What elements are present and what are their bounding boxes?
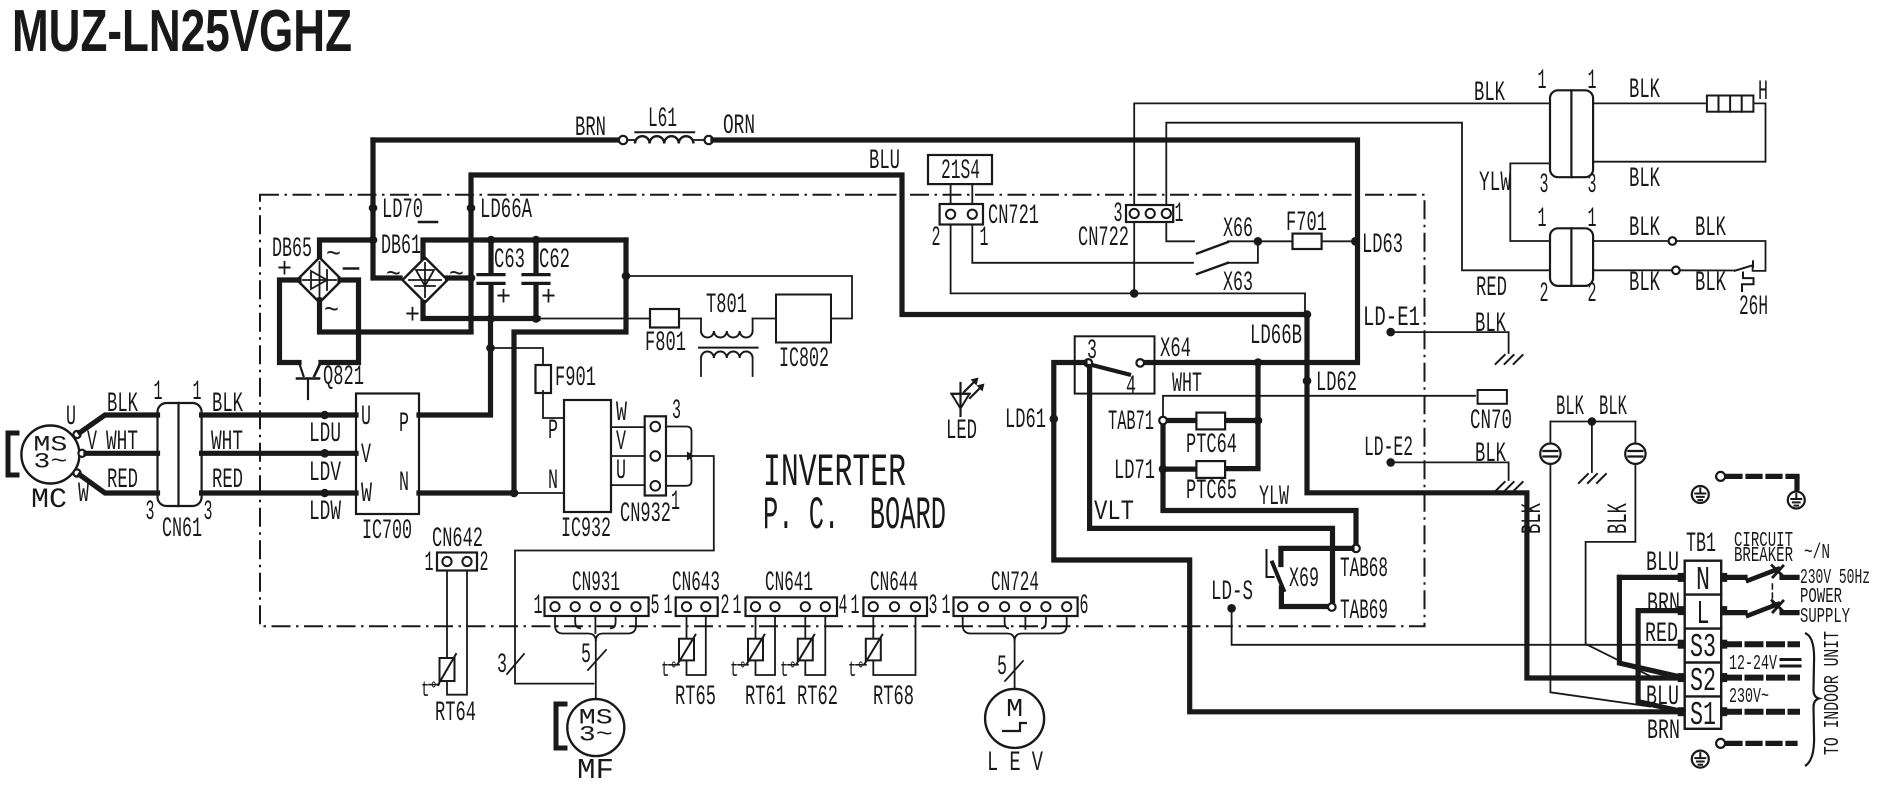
node LD66A <box>467 195 532 226</box>
svg-text:BLK: BLK <box>1629 75 1660 106</box>
svg-text:LED: LED <box>946 416 977 447</box>
svg-text:1: 1 <box>671 487 680 518</box>
diode bridge DB65 <box>297 258 342 303</box>
svg-text:1: 1 <box>1538 66 1547 97</box>
label C63 + <box>496 283 511 314</box>
terminal MC U <box>73 431 80 438</box>
svg-text:RED: RED <box>1476 273 1507 304</box>
breaker link dashed <box>1771 584 1773 607</box>
switch X64 blade <box>1092 365 1129 375</box>
label plug2 pin1 R <box>1588 204 1597 235</box>
svg-text:MC: MC <box>31 485 67 516</box>
label plug1 pin3 L <box>1540 170 1549 201</box>
coil 21S4 box <box>928 155 992 184</box>
wire to F701 <box>1258 240 1293 242</box>
svg-text:PTC65: PTC65 <box>1186 476 1237 507</box>
capacitor C63 <box>478 240 504 319</box>
node PTC tap <box>1254 358 1263 367</box>
svg-text:BLK: BLK <box>1518 503 1549 534</box>
svg-text:1: 1 <box>733 591 742 622</box>
svg-text:2: 2 <box>1540 279 1549 310</box>
label plug1 pin1 L <box>1538 66 1547 97</box>
label CN641 pin1 <box>733 591 742 622</box>
label 230V 50Hz <box>1800 567 1870 590</box>
wire RT65 left <box>686 616 688 639</box>
wire cap left down <box>1550 464 1650 707</box>
label plug1 pin1 R <box>1588 66 1597 97</box>
wire F701 to LD63 <box>1322 240 1354 242</box>
svg-text:LD66A: LD66A <box>480 195 532 226</box>
label DB61 + bottom <box>405 301 420 332</box>
splice pin2 <box>1672 267 1680 275</box>
svg-text:MUZ-LN25VGHZ: MUZ-LN25VGHZ <box>12 0 352 64</box>
svg-text:3: 3 <box>497 650 507 681</box>
op-amp IC700 box <box>356 394 419 515</box>
label CN644 pin1 <box>851 591 860 622</box>
wire MC U BLK <box>80 415 158 433</box>
label CN642 <box>432 524 483 555</box>
svg-text:N: N <box>1696 562 1710 599</box>
svg-text:TB1: TB1 <box>1686 529 1716 560</box>
capacitor feedthrough left <box>1540 422 1560 464</box>
terminal X64 right <box>1136 359 1144 367</box>
node C62 bottom <box>532 314 541 323</box>
transformer T801 <box>699 319 776 377</box>
label BLK vert right <box>1604 503 1635 534</box>
svg-text:3~: 3~ <box>33 450 67 475</box>
svg-text:+: + <box>496 283 511 314</box>
svg-text:BLK: BLK <box>1556 392 1584 423</box>
svg-text:BRN: BRN <box>1647 589 1680 620</box>
svg-text:BRN: BRN <box>575 113 606 144</box>
label RT65 <box>675 682 716 713</box>
terminal earth lower <box>1716 739 1725 748</box>
svg-text:RT61: RT61 <box>745 682 786 713</box>
svg-text:LD-S: LD-S <box>1211 577 1253 608</box>
label TB1 S2 <box>1690 663 1716 700</box>
svg-text:S1: S1 <box>1690 697 1716 734</box>
wire F901 to IC932 P <box>543 391 564 418</box>
label TB1 N <box>1696 562 1710 599</box>
label IC700 <box>362 516 412 547</box>
svg-text:CN70: CN70 <box>1470 406 1512 437</box>
wire RT64 left <box>446 571 448 659</box>
label C62 + <box>541 283 556 314</box>
svg-text:6: 6 <box>1080 591 1089 622</box>
ground LD-E1 <box>1496 355 1523 364</box>
label YLW <box>1259 482 1289 513</box>
svg-text:TO INDOOR UNIT: TO INDOOR UNIT <box>1822 631 1845 755</box>
wire rail to IC802 <box>626 276 852 319</box>
wire MC W RED <box>80 475 158 493</box>
node C63 top <box>487 236 496 245</box>
svg-text:L61: L61 <box>648 104 677 135</box>
label MC V <box>87 427 97 458</box>
connector CN721 <box>940 204 983 225</box>
wire CN722 pin1 down <box>1166 222 1194 241</box>
switch X69 wire <box>1281 548 1352 564</box>
terminal earth upper <box>1716 472 1725 481</box>
terminal X64 left <box>1085 359 1093 367</box>
node LDV <box>309 449 341 489</box>
fuse F901 <box>536 365 552 393</box>
svg-text:BLK: BLK <box>1604 503 1635 534</box>
svg-text:BLU: BLU <box>869 146 900 177</box>
wire N to IC932 <box>514 492 564 494</box>
wire plug2 pin1 out <box>1593 240 1669 242</box>
svg-text:230V~: 230V~ <box>1729 686 1769 709</box>
ground filter <box>1579 474 1606 483</box>
wire earth dashes lower <box>1728 741 1795 746</box>
wire RT62 loop <box>805 616 825 675</box>
wire TAB71-LD71 <box>1160 424 1165 469</box>
svg-text:LD66B: LD66B <box>1250 321 1302 352</box>
svg-text:3: 3 <box>1540 170 1549 201</box>
wire pin2 to 26H <box>1680 269 1735 271</box>
svg-text:LD71: LD71 <box>1114 456 1155 487</box>
svg-text:M: M <box>1006 694 1023 724</box>
svg-text:W: W <box>78 479 89 510</box>
connector CN644 <box>863 597 927 616</box>
connector CN641 <box>746 597 838 616</box>
label CN932 pin3 <box>672 396 681 427</box>
svg-text:CN721: CN721 <box>988 201 1039 232</box>
svg-text:3: 3 <box>1114 199 1123 230</box>
svg-text:L: L <box>1697 596 1710 633</box>
label BLK plug1 left <box>1474 78 1505 109</box>
label t RT62 <box>780 658 798 683</box>
svg-text:1: 1 <box>851 591 860 622</box>
label CN721 pin1 <box>980 223 989 254</box>
svg-text:BLK: BLK <box>1695 213 1726 244</box>
svg-text:X66: X66 <box>1223 214 1253 245</box>
label CN932 pin1 <box>671 487 680 518</box>
label F701 <box>1286 208 1327 239</box>
op-amp IC932 box <box>564 400 611 512</box>
svg-text:BRN: BRN <box>1647 716 1680 747</box>
label CN642 pin2 <box>480 548 489 579</box>
svg-text:+: + <box>541 283 556 314</box>
svg-text:1: 1 <box>664 591 673 622</box>
label BLU N <box>1646 548 1679 579</box>
svg-text:21S4: 21S4 <box>941 156 980 187</box>
label X64 pin4 <box>1126 372 1136 403</box>
label TAB71 <box>1108 407 1154 438</box>
svg-text:3: 3 <box>929 591 938 622</box>
label L61 <box>635 104 694 135</box>
label YLW plug <box>1479 168 1511 199</box>
connector CN931 <box>545 597 649 616</box>
node LD-E1 <box>1363 303 1420 336</box>
LED indicator <box>952 378 985 417</box>
label CIRCUIT BREAKER <box>1734 530 1793 568</box>
svg-text:U: U <box>361 402 371 433</box>
thermistor RT64 <box>438 654 456 685</box>
svg-text:BLK: BLK <box>1629 164 1660 195</box>
label CN641 pin4 <box>839 591 848 622</box>
wire BRN top <box>373 137 619 142</box>
svg-text:CN642: CN642 <box>432 524 483 555</box>
label t RT68 <box>848 658 866 683</box>
wire X69 to TAB69 <box>1281 588 1327 607</box>
label IC932 <box>561 514 611 545</box>
label VLT <box>1094 497 1134 528</box>
label H <box>1758 77 1768 108</box>
label CN643 pin1 <box>664 591 673 622</box>
svg-text:LD-E2: LD-E2 <box>1364 433 1413 464</box>
label BLK p2b <box>1695 213 1726 244</box>
wire S3 dashed <box>1726 641 1797 647</box>
thermistor RT65 <box>678 635 696 665</box>
label X69 <box>1289 564 1319 595</box>
fuse F701 <box>1293 234 1322 249</box>
svg-text:~/N: ~/N <box>1804 542 1830 565</box>
svg-text:P: P <box>399 409 409 440</box>
wire CN722 pin3 up <box>1134 103 1548 205</box>
thermistor RT68 <box>864 635 882 665</box>
svg-text:C62: C62 <box>539 245 570 276</box>
wire 3-wire harness to MF <box>515 456 714 684</box>
wire RT61 left <box>755 616 757 639</box>
wire LD-E1 ground <box>1394 332 1509 353</box>
resistor PTC64 <box>1196 413 1225 430</box>
label TB1 S3 <box>1690 629 1716 666</box>
label DB65 ~ top <box>326 240 341 271</box>
label CN61 pin1 left <box>154 377 163 408</box>
connector CN932 <box>645 416 666 495</box>
svg-text:1: 1 <box>1588 66 1597 97</box>
svg-text:IC700: IC700 <box>362 516 412 547</box>
svg-text:RT68: RT68 <box>873 682 914 713</box>
connector CN642 <box>437 553 477 571</box>
node DB61-LD66A junction <box>467 274 476 283</box>
label BLK return <box>1629 164 1660 195</box>
svg-text:LD70: LD70 <box>382 195 423 226</box>
label BLK left <box>107 389 138 420</box>
svg-text:RT64: RT64 <box>435 698 476 729</box>
wire IC932 U <box>611 484 645 486</box>
wire DB65 top riser <box>320 240 374 259</box>
label 21S4 <box>941 156 980 187</box>
label SUPPLY <box>1800 606 1850 629</box>
wire WHT CN70 <box>1163 396 1475 417</box>
label BLK LD-E2 <box>1475 439 1506 470</box>
breaker L <box>1725 601 1797 616</box>
label DB65 ~ bottom <box>324 296 339 327</box>
label CN70 <box>1470 406 1512 437</box>
node LD-S <box>1211 577 1253 613</box>
wire RT64 loop <box>447 571 467 695</box>
label DB61 ~ right <box>449 260 464 291</box>
svg-text:V: V <box>616 427 626 458</box>
svg-text:BLK: BLK <box>1629 213 1660 244</box>
wire MC V WHT <box>86 451 158 456</box>
svg-text:RT62: RT62 <box>797 682 838 713</box>
svg-text:3: 3 <box>1588 170 1597 201</box>
label BRN S1 <box>1647 716 1680 747</box>
connector plug upper <box>1550 90 1593 177</box>
node filter mid <box>1588 417 1597 426</box>
svg-text:1: 1 <box>942 591 951 622</box>
svg-text:X63: X63 <box>1223 268 1253 299</box>
label CN722 pin1 <box>1175 199 1184 230</box>
svg-text:ORN: ORN <box>723 111 755 142</box>
svg-text:3~: 3~ <box>579 723 613 748</box>
svg-text:T801: T801 <box>706 290 747 321</box>
motor LEV <box>985 689 1044 748</box>
svg-text:F801: F801 <box>645 328 686 359</box>
label CN931 pin5 <box>651 591 660 622</box>
wire DC top bus <box>423 240 626 258</box>
label CN722 <box>1078 223 1129 254</box>
terminal block TB1 <box>1685 561 1722 729</box>
label C62 <box>539 245 570 276</box>
label CN644 <box>870 568 918 599</box>
wire BRN L-S1 <box>1638 611 1683 712</box>
terminal TAB71 <box>1159 417 1167 425</box>
wire BLU N-S2 <box>1619 577 1683 677</box>
connector CN643 <box>676 597 718 616</box>
svg-text:1: 1 <box>1538 204 1547 235</box>
svg-text:t°: t° <box>730 658 747 683</box>
label MC <box>31 485 67 516</box>
connector CN724 <box>954 597 1078 616</box>
svg-text:CN931: CN931 <box>572 568 620 599</box>
svg-text:t°: t° <box>661 658 678 683</box>
inductor L61 <box>627 136 704 143</box>
thermistor RT61 <box>747 635 765 665</box>
wire N bus <box>419 490 514 495</box>
svg-text:t°: t° <box>848 658 865 683</box>
label TO INDOOR UNIT <box>1822 631 1845 755</box>
svg-text:L E V: L E V <box>987 748 1043 779</box>
wire LD-E2 ground <box>1394 462 1509 480</box>
label CN931 <box>572 568 620 599</box>
svg-text:LD62: LD62 <box>1316 368 1357 399</box>
label 5-wire slash LEV <box>997 652 1023 683</box>
label DB65 + left <box>277 255 292 286</box>
label BLK p2d <box>1695 268 1726 299</box>
label BLK right <box>212 389 243 420</box>
capacitor C62 <box>523 240 549 319</box>
node N-IC932 junction <box>510 489 519 498</box>
wire DB65 bottom bus <box>320 300 472 332</box>
resistor PTC65 <box>1196 461 1225 478</box>
svg-text:~: ~ <box>324 296 339 327</box>
svg-text:WHT: WHT <box>211 427 243 458</box>
label CN61 <box>162 514 202 545</box>
label t RT64 <box>421 678 439 703</box>
label BLU S2 <box>1646 682 1679 713</box>
svg-text:4: 4 <box>839 591 848 622</box>
wire RT61 loop <box>756 616 776 675</box>
svg-text:F701: F701 <box>1286 208 1327 239</box>
svg-text:3: 3 <box>146 497 155 528</box>
svg-text:C63: C63 <box>494 245 525 276</box>
label RT61 <box>745 682 786 713</box>
svg-text:~: ~ <box>386 260 401 291</box>
capacitor feedthrough right <box>1625 422 1645 464</box>
label DB61 - top <box>419 221 437 224</box>
wire CN721 pin1 run <box>972 225 1193 263</box>
label BRN L <box>1647 589 1680 620</box>
wire earth dashes upper <box>1728 476 1797 489</box>
thermistor RT62 <box>796 635 814 665</box>
svg-text:TAB71: TAB71 <box>1108 407 1154 438</box>
svg-text:1: 1 <box>534 591 543 622</box>
node LD62 <box>1303 368 1357 399</box>
svg-text:S3: S3 <box>1690 629 1716 666</box>
node LD61 <box>1005 405 1058 436</box>
wire RT62 left <box>804 616 806 639</box>
terminal TAB68 <box>1352 545 1360 553</box>
svg-text:RED: RED <box>1645 619 1678 650</box>
label BLK LD-E1 <box>1475 309 1506 340</box>
node C63 bottom <box>487 314 496 323</box>
label plug2 pin2 L <box>1540 279 1549 310</box>
wire PTC vertical <box>1225 363 1258 469</box>
wire RT68 loop <box>873 616 915 675</box>
breaker N <box>1725 566 1797 581</box>
svg-text:3: 3 <box>672 396 681 427</box>
svg-text:P. C. BOARD: P. C. BOARD <box>763 490 946 542</box>
node F901 tap <box>486 344 495 353</box>
motor MF <box>567 699 624 756</box>
svg-text:LD61: LD61 <box>1005 405 1046 436</box>
fuse F801 <box>650 309 679 328</box>
switch X63 <box>1197 241 1258 274</box>
node LD71 <box>1114 456 1167 487</box>
svg-text:SUPPLY: SUPPLY <box>1800 606 1850 629</box>
label RED S3 <box>1645 619 1678 650</box>
wire P bus <box>419 319 491 416</box>
svg-text:Q821: Q821 <box>323 362 364 393</box>
label Q821 <box>323 362 364 393</box>
svg-text:LD63: LD63 <box>1362 230 1403 261</box>
svg-text:BLK: BLK <box>1599 392 1627 423</box>
title MUZ-LN25VGHZ <box>12 0 352 64</box>
node right rail tap <box>622 272 631 281</box>
svg-text:LDV: LDV <box>309 458 341 489</box>
wire 21S4 pins <box>951 184 973 204</box>
label plug2 pin1 L <box>1538 204 1547 235</box>
label BLK cap2 <box>1599 392 1627 423</box>
node LD70 <box>369 195 423 226</box>
node CN722 junction <box>1130 289 1139 298</box>
label CN722 pin3 <box>1114 199 1123 230</box>
label ORN <box>723 111 755 142</box>
svg-text:TAB68: TAB68 <box>1340 554 1388 585</box>
svg-text:~: ~ <box>326 240 341 271</box>
wire heater return <box>1593 103 1765 161</box>
svg-text:BLK: BLK <box>1474 78 1505 109</box>
label RED right <box>212 465 243 496</box>
label RT62 <box>797 682 838 713</box>
svg-text:P: P <box>548 416 558 447</box>
svg-text:BREAKER: BREAKER <box>1734 545 1793 568</box>
svg-text:DB61: DB61 <box>381 231 421 262</box>
svg-text:WHT: WHT <box>1172 369 1202 400</box>
node LD66B <box>1250 310 1311 352</box>
svg-text:+: + <box>405 301 420 332</box>
wire RT68 left <box>872 616 874 639</box>
label DB61 ~ left <box>386 260 401 291</box>
transistor Q821 <box>297 363 321 400</box>
wire LD66A vertical and BLU <box>471 175 1307 331</box>
label BLK heater <box>1629 75 1660 106</box>
label LEV <box>987 748 1043 779</box>
label IC802 <box>779 344 829 375</box>
